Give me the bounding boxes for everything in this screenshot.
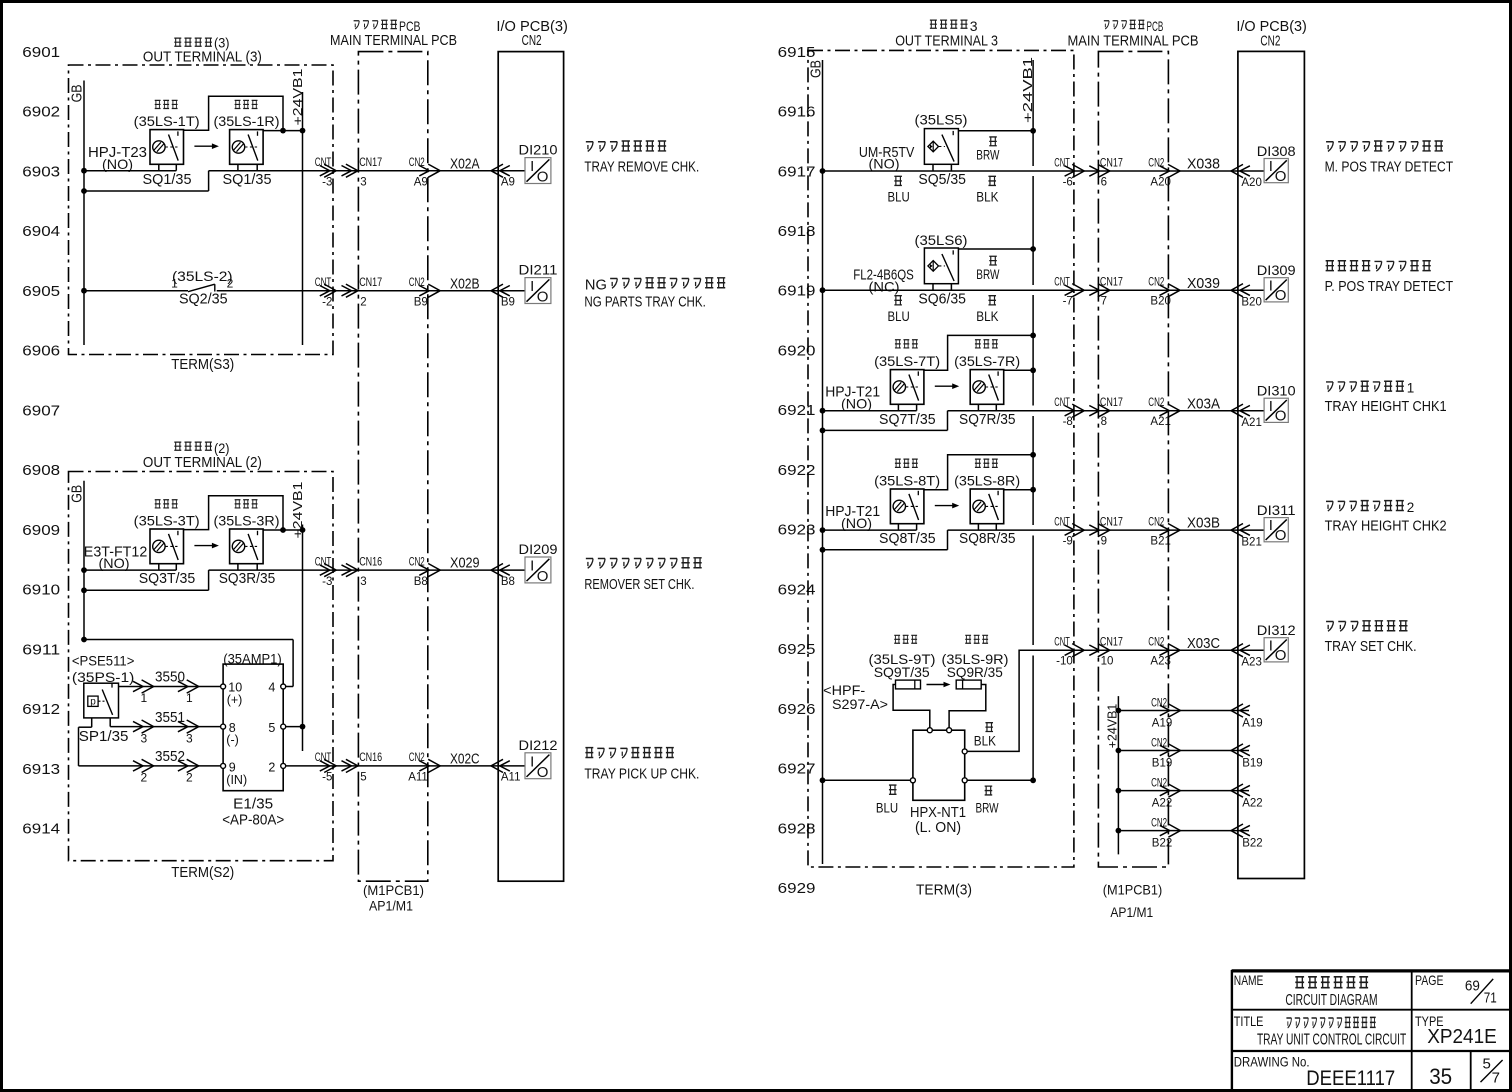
svg-text:6913: 6913: [22, 762, 60, 778]
connector crossing X02B CNT-2 CN17-2 CN2-B9: [315, 275, 515, 308]
svg-text:6910: 6910: [22, 583, 60, 599]
connector crossing X02A CNT-3 CN17-3 CN2-A9: [315, 155, 515, 188]
svg-text:CN16: CN16: [359, 752, 382, 764]
svg-text:O: O: [1275, 408, 1287, 425]
svg-text:(35LS-7T): (35LS-7T): [874, 353, 940, 369]
I/O input DI312: [1257, 622, 1296, 664]
svg-text:O: O: [1275, 647, 1287, 664]
svg-text:6923: 6923: [778, 523, 816, 539]
svg-text:I: I: [1269, 158, 1273, 175]
+24VB1 rail (S3): [290, 69, 305, 346]
power feed row CN2-A19: [1116, 697, 1263, 729]
svg-text:DI309: DI309: [1257, 262, 1296, 278]
svg-text:B9: B9: [501, 296, 515, 308]
return wire 35LS-7 to GB: [820, 411, 948, 434]
+24V feed wiring 6902: [184, 96, 306, 133]
svg-text:+24VB1: +24VB1: [1020, 57, 1035, 123]
svg-text:TRAY UNIT CONTROL CIRCUIT: TRAY UNIT CONTROL CIRCUIT: [1257, 1031, 1407, 1048]
svg-text:O: O: [1275, 168, 1287, 185]
description NGパーツ受台セット確認 NG PARTS TRAY CHK.: [584, 276, 725, 310]
wire pin5 to +24VB1: [286, 724, 306, 730]
svg-text:SQ3R/35: SQ3R/35: [219, 571, 276, 587]
svg-text:OUT TERMINAL (3): OUT TERMINAL (3): [143, 49, 262, 66]
svg-text:(35LS-1T): (35LS-1T): [134, 113, 200, 129]
svg-text:BLK: BLK: [976, 309, 998, 324]
wire 35LS-8 row: [820, 527, 1265, 533]
wire 3552: [79, 727, 221, 784]
title block TITLE cell: [1234, 1013, 1407, 1049]
svg-text:A21: A21: [1241, 417, 1261, 429]
svg-text:6925: 6925: [778, 642, 816, 658]
svg-text:6909: 6909: [22, 523, 60, 539]
header I/O PCB(3) CN2 (right): [1236, 19, 1307, 49]
line number column right 6915-6929: [778, 45, 816, 897]
svg-text:A20: A20: [1241, 177, 1261, 189]
svg-text:2: 2: [268, 761, 275, 775]
svg-text:X039: X039: [1187, 275, 1220, 292]
footer (M1PCB1) AP1/M1 (right): [1103, 882, 1163, 921]
svg-text:CN2: CN2: [1148, 397, 1164, 409]
svg-text:SQ7R/35: SQ7R/35: [959, 412, 1016, 428]
svg-text:I: I: [530, 278, 534, 295]
svg-text:TRAY SET CHK.: TRAY SET CHK.: [1325, 639, 1417, 655]
wire 6905: [81, 288, 525, 294]
svg-text:SQ1/35: SQ1/35: [223, 172, 272, 188]
svg-text:SQ8T/35: SQ8T/35: [879, 531, 936, 547]
svg-text:(NO): (NO): [102, 156, 133, 172]
svg-text:6919: 6919: [778, 284, 816, 300]
svg-text:-3: -3: [322, 576, 332, 588]
svg-text:1: 1: [186, 691, 193, 705]
header I/O PCB(3) CN2: [496, 19, 568, 49]
beam arrow 3T->3R: [194, 543, 219, 549]
svg-text:-3: -3: [322, 176, 332, 188]
svg-text:B20: B20: [1241, 296, 1261, 308]
svg-text:OUT TERMINAL 3: OUT TERMINAL 3: [895, 32, 998, 49]
description マガジン内トレイ確認 M. POS TRAY DETECT: [1325, 141, 1454, 175]
svg-text:2: 2: [141, 771, 148, 785]
svg-text:6927: 6927: [778, 762, 816, 778]
connector crossing X02C CNT-5 CN16-5 CN2-A11: [315, 751, 521, 784]
svg-text:6916: 6916: [778, 105, 816, 121]
svg-text:O: O: [537, 568, 549, 585]
svg-text:PAGE: PAGE: [1415, 972, 1444, 988]
svg-text:<PSE511>: <PSE511>: [72, 653, 134, 669]
svg-text:6906: 6906: [22, 344, 60, 360]
svg-text:X02B: X02B: [450, 275, 480, 292]
emitter sensor 35LS-1T SQ1/35: [134, 100, 200, 187]
wire 6927 BLU/BRW: [820, 777, 1036, 783]
svg-text:6918: 6918: [778, 224, 816, 240]
emitter element 35LS-9T: [893, 680, 930, 728]
svg-text:6920: 6920: [778, 343, 816, 359]
beam arrow 35LS-8: [935, 503, 959, 509]
I/O input DI210: [519, 142, 558, 186]
GB bus (S3): [69, 81, 86, 346]
connector crossing X039 CNT-7 CN17-7 CN2-B20: [1054, 275, 1262, 309]
svg-text:(NC): (NC): [869, 279, 900, 295]
svg-text:CN2: CN2: [1151, 737, 1167, 749]
receiver sensor 35LS-7R SQ7R/35: [954, 340, 1020, 428]
+24VB1 rail (S2): [290, 482, 305, 752]
limit switch 35LS-2 SQ2/35: [171, 268, 234, 308]
amplifier E1/35 (35AMP1) <AP-80A>: [221, 651, 286, 829]
svg-text:3550: 3550: [155, 669, 185, 686]
svg-text:(35LS6): (35LS6): [915, 232, 968, 248]
svg-text:XP241E: XP241E: [1427, 1026, 1497, 1048]
svg-text:CN2: CN2: [409, 556, 425, 568]
svg-text:B8: B8: [414, 576, 428, 588]
svg-text:CN2: CN2: [522, 33, 542, 49]
TERM(S2) label: [171, 865, 234, 881]
svg-text:REMOVER SET CHK.: REMOVER SET CHK.: [584, 577, 694, 593]
svg-text:-5: -5: [322, 772, 332, 784]
svg-text:O: O: [1275, 287, 1287, 304]
svg-text:5: 5: [360, 772, 366, 784]
header 外部中継(2) OUT TERMINAL (2): [143, 440, 262, 471]
svg-text:-6: -6: [1063, 177, 1073, 189]
svg-text:O: O: [537, 169, 549, 186]
label E3T-FT12 (NO): [84, 543, 148, 571]
svg-text:(35LS-7R): (35LS-7R): [954, 353, 1020, 369]
I/O input DI212: [519, 737, 558, 781]
svg-text:(M1PCB1): (M1PCB1): [1103, 882, 1163, 898]
svg-text:A9: A9: [501, 176, 515, 188]
svg-text:HPX-NT1: HPX-NT1: [910, 805, 966, 821]
svg-text:6924: 6924: [778, 582, 816, 598]
svg-text:6929: 6929: [778, 881, 816, 897]
svg-text:CN17: CN17: [359, 157, 382, 169]
svg-text:CN2: CN2: [409, 277, 425, 289]
svg-text:CN17: CN17: [1100, 277, 1123, 289]
svg-text:(-): (-): [226, 733, 239, 747]
svg-text:GB: GB: [808, 60, 825, 78]
title block: [1232, 970, 1510, 1089]
svg-text:(L. ON): (L. ON): [915, 820, 961, 836]
GB bus (S2): [69, 481, 86, 640]
I/O PCB(3) CN2 column (right): [1238, 51, 1305, 878]
svg-text:DEEE1117: DEEE1117: [1306, 1067, 1395, 1090]
svg-text:-10: -10: [1056, 656, 1073, 668]
title block PAGE cell 69/71: [1415, 972, 1497, 1007]
emitter sensor 35LS-8T SQ8T/35: [874, 459, 940, 547]
label HPJ-T21 (NO): [825, 503, 880, 531]
+24V link 35LS5: [958, 128, 1036, 134]
svg-text:P. POS TRAY DETECT: P. POS TRAY DETECT: [1325, 279, 1454, 295]
svg-text:O: O: [1275, 527, 1287, 544]
sensor 35LS6 FL2-4B6QS SQ6/35: [853, 232, 999, 324]
svg-text:TRAY HEIGHT CHK1: TRAY HEIGHT CHK1: [1325, 399, 1447, 415]
svg-text:3: 3: [360, 176, 366, 188]
receiver sensor 35LS-1R SQ1/35: [214, 100, 280, 187]
svg-text:B19: B19: [1242, 758, 1262, 770]
svg-text:TRAY PICK UP CHK.: TRAY PICK UP CHK.: [584, 767, 699, 783]
svg-text:X02C: X02C: [450, 751, 480, 768]
svg-text:6914: 6914: [22, 821, 60, 837]
svg-text:X029: X029: [450, 555, 480, 572]
description トレイ高さ確認2 TRAY HEIGHT CHK2: [1325, 500, 1447, 535]
svg-text:6908: 6908: [22, 463, 60, 479]
svg-text:I: I: [1269, 277, 1273, 294]
svg-text:CN2: CN2: [1148, 158, 1164, 170]
svg-text:p: p: [90, 696, 96, 707]
svg-text:7: 7: [1101, 296, 1107, 308]
beam arrow 9T->9R: [927, 682, 951, 688]
beam arrow 1T->1R: [194, 143, 219, 149]
svg-text:CN17: CN17: [359, 277, 382, 289]
svg-text:6915: 6915: [778, 45, 816, 61]
svg-text:O: O: [537, 764, 549, 781]
GB bus (right): [808, 60, 825, 864]
svg-text:GB: GB: [69, 84, 86, 102]
header メイン中継PCB MAIN TERMINAL PCB (right): [1068, 18, 1199, 49]
svg-text:B22: B22: [1242, 838, 1262, 850]
svg-text:-2: -2: [322, 296, 332, 308]
svg-text:(M1PCB1): (M1PCB1): [363, 882, 424, 898]
svg-text:CN2: CN2: [1151, 817, 1167, 829]
connector crossing X029 CNT-3 CN16-3 CN2-B8: [315, 555, 515, 588]
return wire 6903 to GB: [81, 171, 209, 194]
svg-text:CN2: CN2: [409, 157, 425, 169]
svg-text:I: I: [530, 753, 534, 770]
svg-text:4: 4: [268, 681, 275, 695]
svg-text:A9: A9: [414, 176, 428, 188]
svg-text:B8: B8: [501, 576, 515, 588]
header 外部中継(3) OUT TERMINAL (3): [143, 35, 262, 66]
I/O input DI310: [1257, 383, 1296, 425]
svg-text:35: 35: [1429, 1064, 1452, 1089]
OUT TERMINAL (3) enclosure TERM(S3): [69, 65, 334, 355]
svg-text:NG PARTS TRAY CHK.: NG PARTS TRAY CHK.: [584, 295, 705, 311]
return wire 35LS-8 to GB: [820, 530, 948, 553]
svg-text:CN2: CN2: [1151, 777, 1167, 789]
labels 黒 BLK 青 BLU 茶 BRW: [876, 723, 999, 816]
svg-text:X038: X038: [1187, 156, 1220, 173]
svg-text:<AP-80A>: <AP-80A>: [222, 813, 284, 829]
emitter sensor 35LS-3T SQ3T/35: [134, 500, 200, 587]
svg-text:GB: GB: [69, 485, 86, 503]
svg-text:DI209: DI209: [519, 541, 558, 557]
svg-text:S297-A>: S297-A>: [832, 696, 888, 712]
svg-text:OUT TERMINAL (2): OUT TERMINAL (2): [143, 454, 262, 471]
svg-text:8: 8: [1101, 416, 1107, 428]
svg-text:(35LS-2): (35LS-2): [172, 268, 233, 284]
svg-text:PCB: PCB: [1147, 18, 1164, 34]
svg-text:2: 2: [1407, 500, 1415, 515]
power feed row CN2-B22: [1116, 817, 1263, 849]
svg-text:B21: B21: [1241, 536, 1261, 548]
MAIN TERMINAL PCB column (M1PCB1) AP1/M1: [358, 52, 427, 882]
svg-text:CIRCUIT DIAGRAM: CIRCUIT DIAGRAM: [1285, 992, 1377, 1009]
connector crossing X03C CNT-10 CN17-10 CN2-A23: [1054, 635, 1262, 669]
svg-text:SQ3T/35: SQ3T/35: [139, 571, 196, 587]
receiver element 35LS-9R: [949, 680, 986, 728]
receiver sensor 35LS-3R SQ3R/35: [214, 500, 280, 587]
svg-text:MAIN TERMINAL PCB: MAIN TERMINAL PCB: [1068, 33, 1199, 49]
label HPJ-T23 (NO): [88, 144, 147, 172]
svg-text:6922: 6922: [778, 463, 816, 479]
svg-text:TRAY REMOVE CHK.: TRAY REMOVE CHK.: [584, 160, 699, 176]
svg-text:(35LS-8R): (35LS-8R): [954, 473, 1020, 489]
title block TYPE cell XP241E: [1415, 1013, 1497, 1048]
svg-text:NG: NG: [585, 276, 607, 293]
I/O input DI311: [1257, 502, 1296, 544]
svg-text:(35LS-3T): (35LS-3T): [134, 513, 200, 529]
svg-text:CN17: CN17: [1100, 637, 1123, 649]
svg-text:DRAWING No.: DRAWING No.: [1234, 1053, 1310, 1069]
svg-text:DI310: DI310: [1257, 383, 1296, 399]
svg-text:AP1/M1: AP1/M1: [369, 898, 413, 914]
svg-text:TERM(S2): TERM(S2): [171, 865, 234, 881]
connector crossing X038 CNT-6 CN17-6 CN2-A20: [1054, 156, 1262, 190]
receiver sensor 35LS-8R SQ8R/35: [954, 459, 1020, 547]
svg-text:SQ6/35: SQ6/35: [918, 291, 966, 307]
svg-text:SQ8R/35: SQ8R/35: [959, 531, 1016, 547]
svg-text:-8: -8: [1063, 416, 1073, 428]
svg-text:6928: 6928: [778, 821, 816, 837]
svg-text:-9: -9: [1063, 536, 1073, 548]
description 空トレイ吸着確認 TRAY PICK UP CHK.: [584, 748, 699, 783]
header 外部中継3 OUT TERMINAL 3: [895, 18, 998, 49]
svg-text:AP1/M1: AP1/M1: [1110, 904, 1153, 920]
svg-text:CN17: CN17: [1100, 397, 1123, 409]
svg-text:1: 1: [141, 691, 148, 705]
emitter sensor 35LS-7T SQ7T/35: [874, 340, 940, 428]
svg-text:TERM(3): TERM(3): [916, 883, 972, 899]
header メイン中継PCB MAIN TERMINAL PCB: [330, 18, 457, 49]
svg-text:DI211: DI211: [519, 262, 558, 278]
svg-text:6: 6: [1101, 177, 1107, 189]
description リムーバーセット確認 REMOVER SET CHK.: [584, 558, 701, 593]
title block NAME cell: [1234, 972, 1378, 1009]
+24V link 35LS6: [958, 246, 1036, 252]
svg-text:CN17: CN17: [1100, 517, 1123, 529]
svg-text:3: 3: [360, 576, 366, 588]
wire 6919: [820, 287, 1265, 293]
svg-text:A11: A11: [408, 772, 428, 784]
svg-text:I: I: [1269, 398, 1273, 415]
svg-text:-7: -7: [1063, 296, 1073, 308]
svg-text:(+): (+): [227, 693, 243, 707]
svg-text:6904: 6904: [22, 224, 60, 240]
svg-text:M. POS TRAY DETECT: M. POS TRAY DETECT: [1325, 159, 1454, 175]
svg-text:69: 69: [1465, 977, 1480, 994]
svg-text:O: O: [537, 289, 549, 306]
svg-text:A19: A19: [1152, 718, 1172, 730]
svg-text:CN17: CN17: [1100, 158, 1123, 170]
+24VB1 rail (right): [1020, 57, 1035, 780]
svg-text:6911: 6911: [22, 642, 60, 658]
MAIN TERMINAL PCB column right (M1PCB1) AP1/M1: [1098, 51, 1168, 867]
svg-text:1: 1: [171, 277, 178, 291]
title block DRAWING cell DEEE1117 35 5/7: [1234, 1053, 1503, 1090]
svg-text:71: 71: [1484, 990, 1497, 1007]
svg-text:BRW: BRW: [976, 267, 999, 282]
svg-text:MAIN TERMINAL PCB: MAIN TERMINAL PCB: [330, 33, 457, 49]
svg-text:I: I: [1269, 517, 1273, 534]
I/O input DI309: [1257, 262, 1296, 304]
footer (M1PCB1) AP1/M1: [363, 882, 424, 913]
svg-text:A23: A23: [1241, 656, 1261, 668]
svg-text:A22: A22: [1242, 798, 1262, 810]
svg-text:SQ9T/35: SQ9T/35: [874, 664, 930, 680]
labels <PSE511> (35PS-1): [72, 653, 134, 686]
svg-text:(NO): (NO): [869, 156, 900, 172]
svg-text:10: 10: [1101, 656, 1114, 668]
svg-text:TRAY HEIGHT CHK2: TRAY HEIGHT CHK2: [1325, 519, 1447, 535]
svg-text:NAME: NAME: [1234, 972, 1264, 988]
amplifier HPX-NT1 (L. ON): [910, 728, 967, 836]
svg-text:SQ2/35: SQ2/35: [179, 292, 228, 308]
svg-text:CN16: CN16: [359, 556, 382, 568]
svg-text:DI210: DI210: [519, 142, 558, 158]
svg-text:CN2: CN2: [1148, 277, 1164, 289]
I/O input DI308: [1257, 143, 1296, 185]
wire 35LS-7 row: [820, 408, 1265, 414]
svg-text:6912: 6912: [22, 702, 60, 718]
+24V feed wiring 35LS-8: [924, 452, 1036, 493]
svg-text:6905: 6905: [22, 284, 60, 300]
svg-text:DI312: DI312: [1257, 622, 1296, 638]
svg-text:BLU: BLU: [888, 190, 910, 205]
svg-text:SQ7T/35: SQ7T/35: [879, 412, 936, 428]
svg-text:6902: 6902: [22, 105, 60, 121]
sensor 35LS5 UM-R5TV SQ5/35: [859, 112, 1000, 205]
wire BLK output to CNT row 6925: [967, 650, 1264, 751]
svg-text:(NO): (NO): [841, 395, 872, 411]
svg-text:SQ5/35: SQ5/35: [918, 172, 966, 188]
svg-text:I: I: [530, 158, 534, 175]
svg-text:X03A: X03A: [1187, 395, 1220, 412]
I/O PCB(3) CN2 column (left): [498, 52, 563, 882]
svg-text:+24VB1: +24VB1: [290, 69, 305, 126]
svg-text:CN2: CN2: [1148, 637, 1164, 649]
node 6911 GB junction and top wire: [81, 637, 293, 687]
svg-text:3: 3: [186, 731, 193, 745]
svg-text:CN2: CN2: [409, 752, 425, 764]
description トレイ排出確認 TRAY REMOVE CHK.: [584, 141, 699, 175]
svg-text:(35LS-1R): (35LS-1R): [214, 113, 280, 129]
I/O input DI209: [519, 541, 558, 585]
svg-text:B22: B22: [1152, 838, 1172, 850]
svg-text:(35LS5): (35LS5): [915, 112, 968, 128]
wire 3550: [119, 669, 221, 706]
+24V feed wiring 6908: [184, 496, 306, 533]
description トレイ収納確認 TRAY SET CHK.: [1325, 621, 1417, 655]
wire 6913 output pin2: [286, 765, 525, 767]
OUT TERMINAL 3 enclosure TERM(3): [808, 50, 1074, 867]
svg-text:DI308: DI308: [1257, 143, 1296, 159]
svg-text:2: 2: [186, 771, 193, 785]
svg-text:CN2: CN2: [1148, 517, 1164, 529]
+24V feed wiring 35LS-7: [924, 333, 1036, 374]
svg-text:E1/35: E1/35: [233, 797, 273, 813]
svg-text:X02A: X02A: [450, 155, 480, 172]
svg-text:BLU: BLU: [876, 800, 898, 815]
description トレイ高さ確認1 TRAY HEIGHT CHK1: [1325, 380, 1447, 415]
svg-text:I: I: [530, 557, 534, 574]
svg-text:2: 2: [360, 296, 366, 308]
svg-text:3: 3: [141, 731, 148, 745]
description 吸着位置トレイ確認 P. POS TRAY DETECT: [1325, 261, 1454, 295]
svg-text:PCB: PCB: [399, 18, 421, 34]
svg-text:SP1/35: SP1/35: [79, 729, 129, 745]
svg-text:3551: 3551: [155, 709, 185, 726]
labels 投光器/受光器 (35LS-9T)(35LS-9R) SQ9T/35 SQ9R/35: [869, 635, 1009, 680]
svg-text:(NO): (NO): [99, 555, 130, 571]
svg-text:BRW: BRW: [976, 800, 999, 815]
svg-text:BLU: BLU: [888, 309, 910, 324]
